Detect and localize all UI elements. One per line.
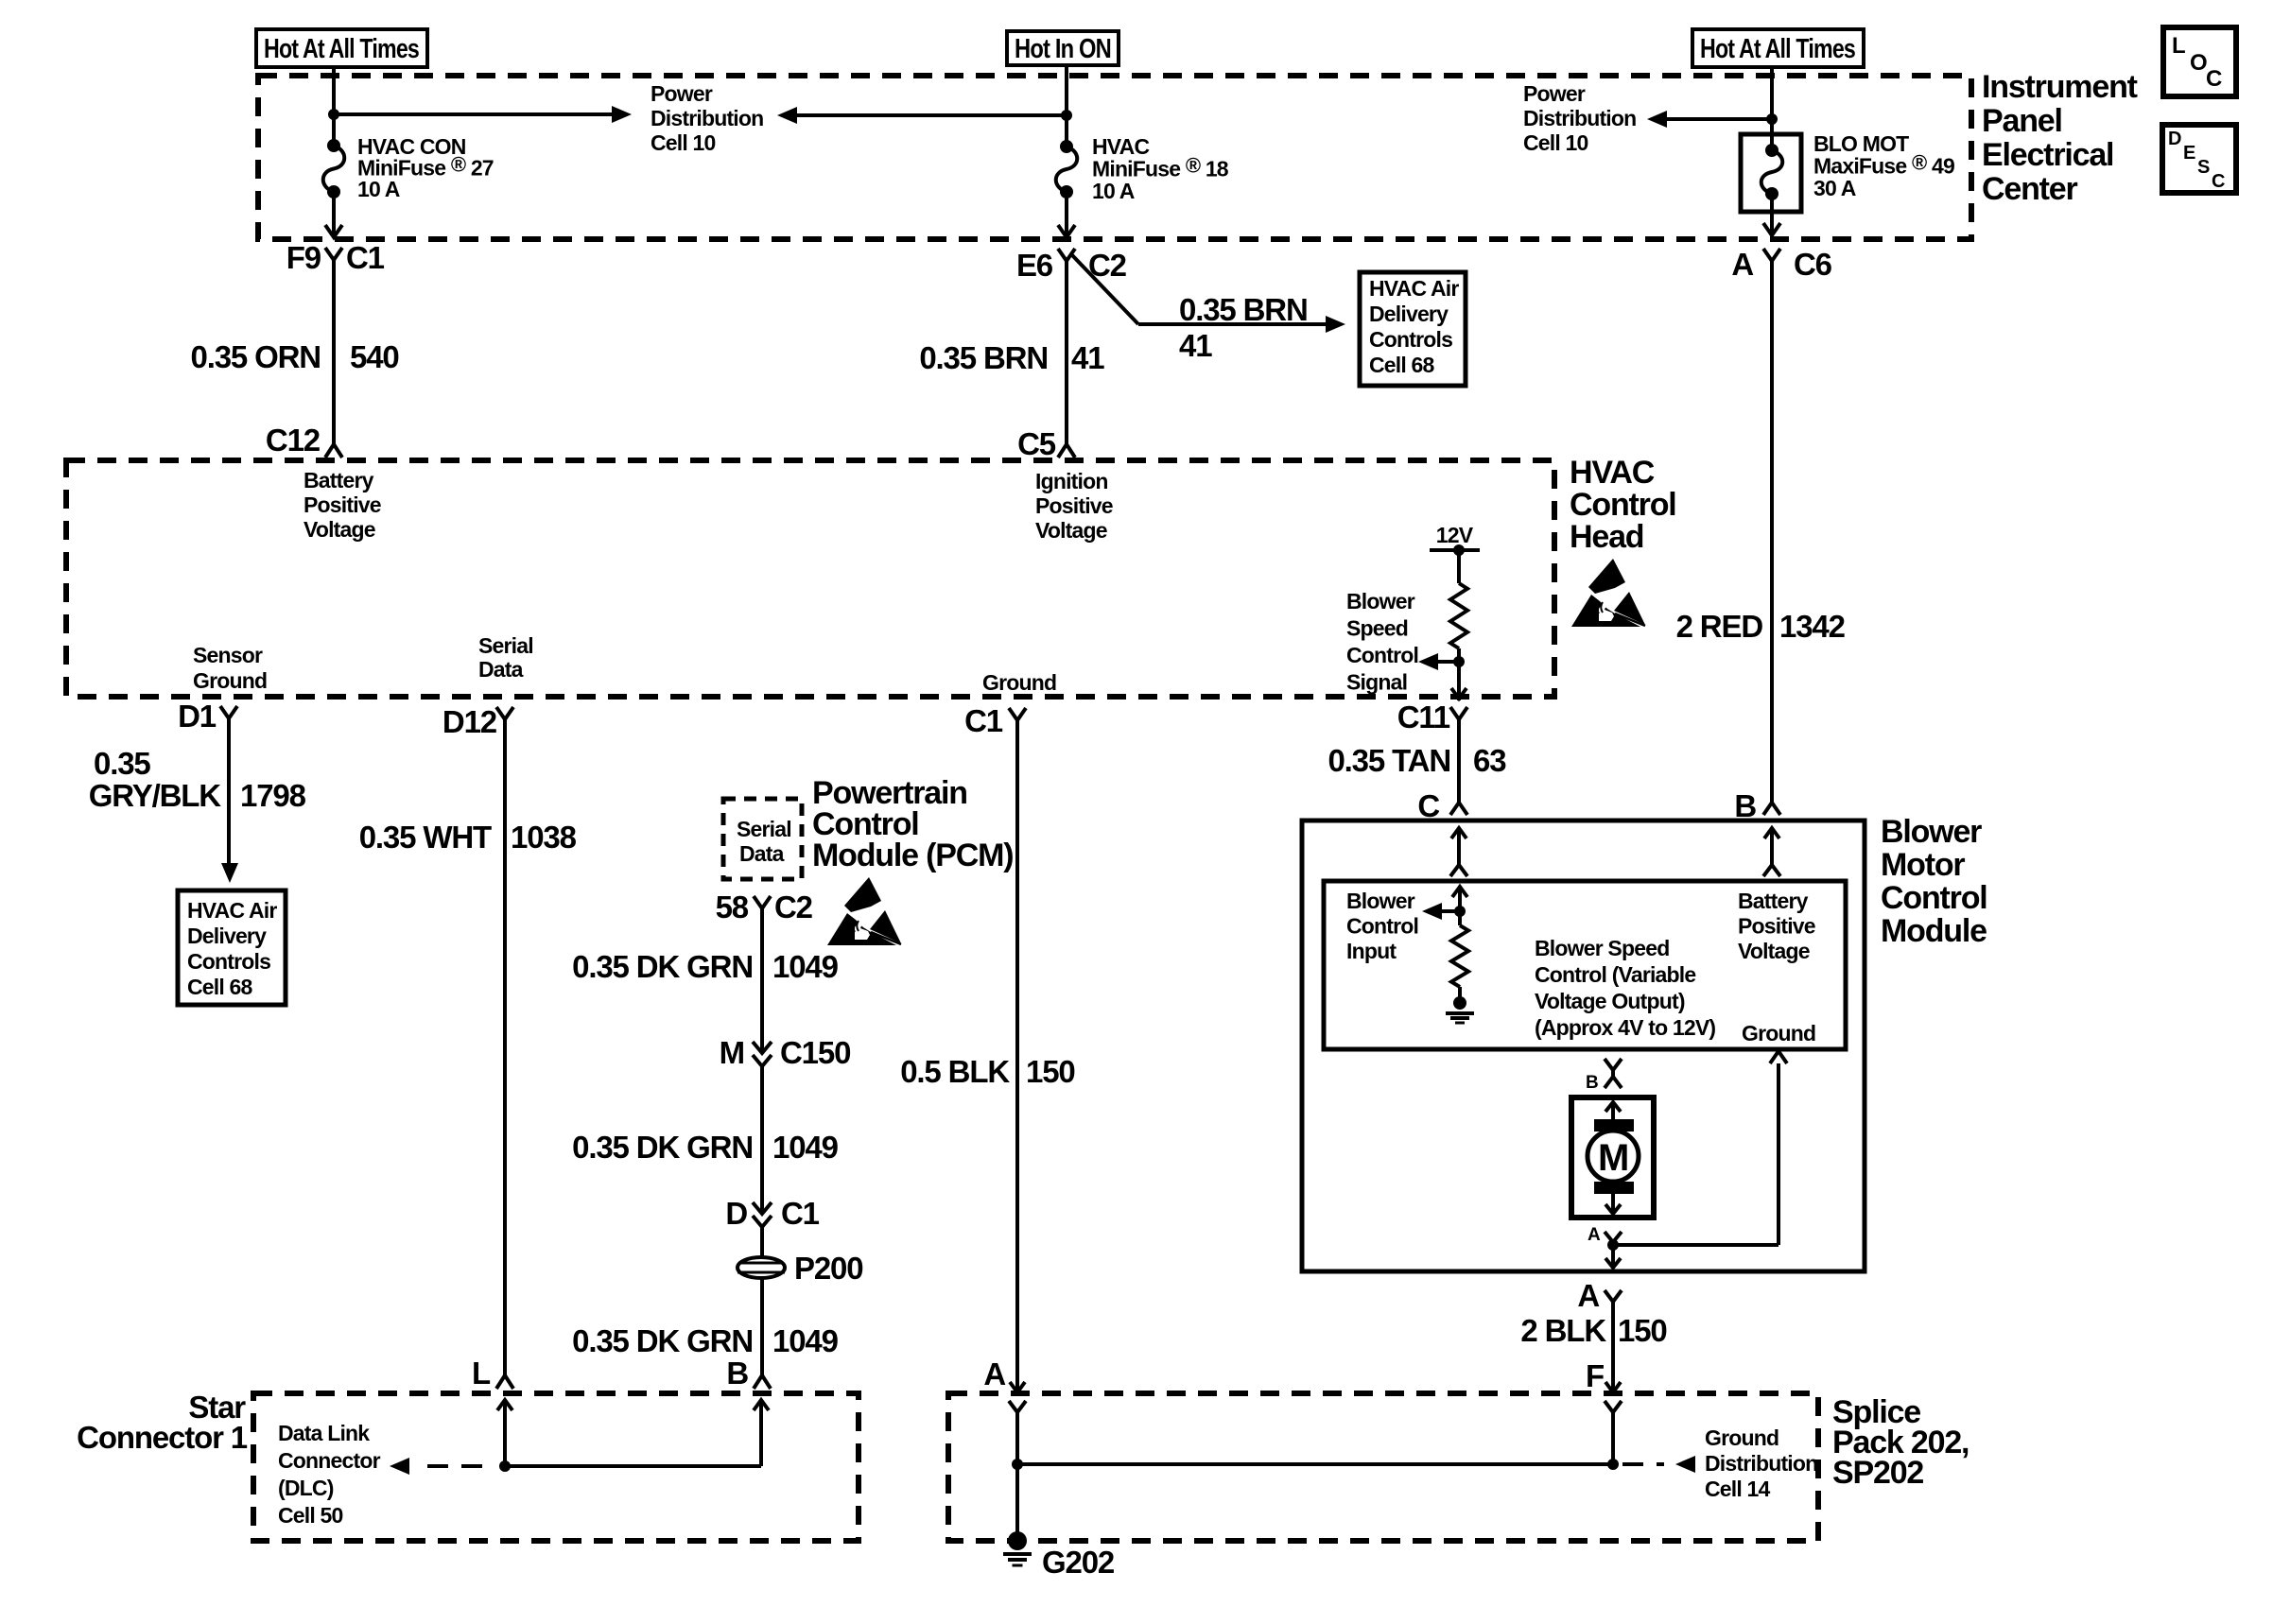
label: 0.35 DK GRN 1049 (1) (572, 949, 838, 984)
svg-text:Data: Data (478, 657, 524, 682)
svg-text:HVAC: HVAC (1092, 134, 1149, 159)
svg-text:Panel: Panel (1982, 103, 2062, 139)
module ground pin connector (1770, 1051, 1787, 1063)
svg-text:540: 540 (350, 339, 399, 374)
svg-text:0.35 WHT: 0.35 WHT (359, 820, 492, 855)
svg-text:C1: C1 (964, 703, 1003, 738)
wire 0.35 ORN 540 (332, 259, 336, 444)
power label box: Hot In ON (1007, 31, 1119, 65)
wire arrow to Power Distribution Cell 10 (middle) (777, 107, 1067, 124)
svg-text:D12: D12 (442, 704, 497, 739)
connector pin C1 (ground) (964, 703, 1026, 738)
svg-text:Battery: Battery (1738, 889, 1809, 913)
HVAC Control Head dashed box (66, 460, 1554, 697)
wire 2 BLK 150 (1611, 1302, 1615, 1369)
svg-text:Motor: Motor (1881, 847, 1965, 883)
connector pin D12 (442, 704, 513, 739)
svg-text:Hot At All Times: Hot At All Times (1700, 34, 1855, 64)
svg-text:Signal: Signal (1346, 670, 1407, 695)
label: HVAC CON MiniFuse 27 10 A (357, 134, 494, 201)
svg-text:M: M (1598, 1137, 1628, 1179)
label: 0.35 WHT 1038 (359, 820, 577, 855)
dashed arrow to Data Link Connector (390, 1458, 482, 1475)
junction node at fuse 27 feed (328, 109, 339, 120)
svg-text:150: 150 (1618, 1313, 1667, 1348)
svg-text:HVAC Air: HVAC Air (187, 898, 277, 923)
svg-text:E6: E6 (1016, 248, 1053, 283)
svg-text:E: E (2183, 143, 2195, 164)
connector pin B (DLC) (726, 1356, 771, 1391)
svg-text:C1: C1 (346, 240, 385, 275)
resistor: blower speed control (head) (1450, 583, 1467, 648)
svg-text:GRY/BLK: GRY/BLK (89, 778, 222, 813)
svg-text:Electrical: Electrical (1982, 137, 2113, 173)
svg-text:Voltage Output): Voltage Output) (1535, 989, 1685, 1013)
svg-text:Blower: Blower (1881, 814, 1982, 850)
module inner box: blower speed control (1324, 881, 1846, 1049)
label: Blower Speed Control (Variable Voltage Output) (1535, 936, 1715, 1040)
svg-text:0.35 ORN: 0.35 ORN (191, 339, 321, 374)
Serial Data dashed box (PCM) (723, 799, 802, 879)
svg-text:Ground: Ground (1705, 1425, 1778, 1450)
label: Power Distribution Cell 10 (left) (651, 81, 763, 155)
svg-text:Cell 14: Cell 14 (1705, 1477, 1771, 1501)
svg-text:M: M (720, 1035, 744, 1070)
resistor: blower control input (module) (1451, 911, 1468, 987)
svg-text:Hot In ON: Hot In ON (1015, 34, 1111, 64)
svg-text:1049: 1049 (772, 1130, 839, 1165)
svg-text:Blower: Blower (1346, 889, 1415, 913)
wire: star node to B pin riser (505, 1400, 769, 1466)
label: Ground (module) (1742, 1021, 1815, 1045)
svg-text:S: S (2197, 157, 2210, 178)
svg-text:L: L (472, 1356, 491, 1391)
wire 0.35 DK GRN 1049 (segment 1) (760, 908, 764, 1052)
svg-text:F: F (1586, 1358, 1604, 1393)
fuse HVAC CON MiniFuse 27 10 A (323, 139, 345, 199)
svg-text:BLO MOT: BLO MOT (1813, 131, 1909, 156)
wire 0.35 BRN 41 (vertical) (1065, 260, 1068, 444)
svg-text:2 RED: 2 RED (1676, 609, 1763, 644)
label: Power Distribution Cell 10 (right) (1523, 81, 1636, 155)
label: 0.35 BRN 41 (vertical) (919, 340, 1104, 375)
label: 2 RED 1342 (1676, 609, 1846, 644)
box: HVAC Air Delivery Controls Cell 68 (left) (178, 890, 286, 1005)
connector pin E6 C2 (1016, 248, 1127, 283)
ESD symbol (HVAC Control Head) (1571, 559, 1645, 627)
label: Serial Data (head) (478, 633, 533, 682)
wire to splice P200 (760, 1227, 764, 1257)
arrow: blower speed control signal (1418, 653, 1459, 670)
12V supply bar (1430, 523, 1480, 556)
connector pin C5 (1017, 426, 1075, 461)
connector pin B (motor) (1586, 1059, 1622, 1093)
junction node A (motor return) (1607, 1239, 1619, 1251)
splice P200 (737, 1251, 862, 1286)
svg-text:Distribution: Distribution (651, 106, 763, 130)
svg-text:1798: 1798 (240, 778, 306, 813)
connector pin F9 C1 (286, 240, 385, 275)
fuse box BLO MOT MaxiFuse 49 (1741, 134, 1801, 212)
svg-text:C2: C2 (774, 890, 813, 924)
svg-text:Positive: Positive (1738, 914, 1815, 939)
label: 0.5 BLK 150 (900, 1054, 1074, 1089)
svg-text:B: B (1734, 788, 1756, 823)
Instrument Panel Electrical Center dashed box (258, 76, 1971, 239)
svg-text:Positive: Positive (304, 492, 381, 517)
svg-text:F9: F9 (286, 240, 321, 275)
svg-text:MaxiFuse ® 49: MaxiFuse ® 49 (1813, 151, 1954, 179)
ESD symbol (PCM) (827, 877, 901, 945)
connector pin D C1 (725, 1196, 819, 1231)
svg-text:Power: Power (1523, 81, 1586, 106)
svg-text:Center: Center (1982, 171, 2078, 207)
svg-text:Ignition: Ignition (1035, 469, 1108, 493)
svg-text:A: A (1588, 1225, 1601, 1245)
svg-text:C6: C6 (1794, 247, 1832, 282)
blower motor box (1571, 1097, 1654, 1218)
svg-text:Delivery: Delivery (1369, 302, 1449, 326)
connector pin L (472, 1356, 513, 1391)
svg-text:Distribution: Distribution (1523, 106, 1636, 130)
svg-text:A: A (1577, 1278, 1599, 1313)
svg-text:Cell 68: Cell 68 (1369, 353, 1435, 377)
label: Powertrain Control Module (PCM) (812, 775, 1013, 873)
wire: 12V to blower speed resistor (1457, 550, 1461, 583)
svg-text:Controls: Controls (1369, 327, 1452, 352)
wire: module ground return (1613, 1063, 1778, 1245)
svg-text:0.35 DK GRN: 0.35 DK GRN (572, 1323, 753, 1358)
label: Battery Positive Voltage (module) (1738, 889, 1815, 963)
svg-text:10 A: 10 A (357, 177, 400, 201)
svg-text:1049: 1049 (772, 949, 839, 984)
svg-text:Controls: Controls (187, 949, 270, 974)
wire: branch 0.35 BRN 41 to HVAC Air Delivery Controls (1072, 255, 1345, 333)
label: HVAC MiniFuse 18 10 A (1092, 134, 1229, 203)
wire: splice to G202 (1015, 1464, 1019, 1539)
wire: fuse 27 output arrow (325, 192, 342, 237)
wire 0.35 GRY/BLK 1798 (227, 718, 231, 866)
wire: Hot At All Times to fuse 49 (1770, 67, 1774, 150)
svg-text:Cell 68: Cell 68 (187, 975, 253, 999)
svg-text:C5: C5 (1017, 426, 1056, 461)
svg-text:Connector: Connector (278, 1448, 381, 1473)
svg-text:Control: Control (1346, 643, 1418, 667)
svg-text:0.35: 0.35 (94, 746, 150, 781)
svg-text:C11: C11 (1397, 700, 1450, 734)
dashed arrow to Ground Distribution (1622, 1456, 1695, 1473)
svg-text:B: B (726, 1356, 748, 1391)
svg-text:Control: Control (1570, 487, 1676, 523)
svg-text:Ground: Ground (1742, 1021, 1815, 1045)
label: Ground Distribution Cell 14 (1705, 1425, 1817, 1501)
label: Blower Motor Control Module (1881, 814, 1987, 949)
svg-text:41: 41 (1071, 340, 1104, 375)
label: Ignition Positive Voltage (head) (1035, 469, 1113, 543)
LOC legend box (2163, 27, 2236, 96)
svg-text:G202: G202 (1042, 1545, 1115, 1580)
junction node: splice left (1012, 1459, 1023, 1470)
svg-text:Instrument: Instrument (1982, 69, 2138, 105)
module internal ground (1446, 987, 1474, 1023)
svg-text:0.35 DK GRN: 0.35 DK GRN (572, 949, 753, 984)
svg-text:Control: Control (1346, 914, 1418, 939)
svg-text:O: O (2190, 50, 2207, 76)
svg-text:Voltage: Voltage (1035, 518, 1107, 543)
svg-text:Connector 1: Connector 1 (77, 1420, 248, 1455)
module input pin C arrow (1450, 828, 1467, 876)
svg-text:Data: Data (739, 841, 785, 866)
connector pin A (splice) with arrow (983, 1356, 1025, 1392)
svg-text:2 BLK: 2 BLK (1520, 1313, 1606, 1348)
label: HVAC Control Head (1570, 455, 1676, 555)
svg-text:D: D (725, 1196, 747, 1231)
svg-text:Delivery: Delivery (187, 924, 267, 948)
svg-text:A: A (983, 1356, 1005, 1391)
connector pin B (module) (1734, 788, 1780, 823)
label: 0.35 TAN 63 (1327, 743, 1506, 778)
wire: resistor to signal node (1451, 648, 1466, 700)
wire 2 RED 1342 (1770, 260, 1774, 803)
label: Splice Pack 202 SP202 (1832, 1394, 1969, 1491)
connector pin C11 (1397, 700, 1467, 734)
svg-text:Module (PCM): Module (PCM) (812, 838, 1013, 873)
svg-text:C: C (2206, 66, 2222, 92)
svg-text:1049: 1049 (772, 1323, 839, 1358)
label: Data Link Connector (DLC) Cell 50 (278, 1421, 381, 1528)
junction node: star connector (499, 1460, 511, 1472)
svg-text:Serial: Serial (737, 817, 791, 841)
svg-text:Module: Module (1881, 913, 1987, 949)
svg-text:0.35 BRN: 0.35 BRN (919, 340, 1048, 375)
label: Blower Control Input (1346, 889, 1418, 963)
wire 0.35 DK GRN 1049 (segment 3) (760, 1278, 764, 1375)
svg-text:12V: 12V (1436, 523, 1474, 547)
fuse BLO MOT MaxiFuse 49 30 A (1761, 144, 1783, 200)
label: 0.35 DK GRN 1049 (2) (572, 1130, 838, 1165)
svg-text:Input: Input (1346, 939, 1397, 963)
svg-text:Sensor: Sensor (193, 643, 263, 667)
svg-text:Ground: Ground (193, 668, 267, 693)
label: 2 BLK 150 (1520, 1313, 1666, 1348)
svg-text:Ground: Ground (982, 670, 1056, 695)
svg-text:0.35 BRN: 0.35 BRN (1179, 292, 1308, 327)
svg-text:L: L (2172, 33, 2185, 59)
svg-text:Control (Variable: Control (Variable (1535, 962, 1695, 987)
Star Connector 1 dashed box (DLC) (253, 1393, 859, 1541)
connector pin A C6 (1731, 247, 1831, 282)
wire: Hot At All Times to fuse 27 (332, 67, 336, 146)
junction node at fuse 18 feed (1061, 110, 1072, 121)
module output arrow at A (1605, 1245, 1621, 1268)
svg-text:A: A (1731, 247, 1753, 282)
svg-text:MiniFuse ® 18: MiniFuse ® 18 (1092, 154, 1229, 181)
svg-text:Cell 50: Cell 50 (278, 1503, 343, 1528)
wire: splice bus (1017, 1462, 1613, 1466)
ground G202 (1003, 1531, 1115, 1580)
connector pin D1 (178, 699, 237, 734)
label: Sensor Ground (193, 643, 267, 693)
svg-text:Serial: Serial (478, 633, 533, 658)
svg-text:Voltage: Voltage (1738, 939, 1810, 963)
box: HVAC Air Delivery Controls Cell 68 (right) (1360, 272, 1466, 386)
wire 0.35 DK GRN 1049 (segment 2) (760, 1066, 764, 1214)
arrow: blower control input (1422, 903, 1460, 920)
svg-text:1038: 1038 (511, 820, 577, 855)
label: Ground (head) (982, 670, 1056, 695)
svg-text:HVAC: HVAC (1570, 455, 1655, 491)
wire: fuse 18 output arrow (1058, 192, 1075, 237)
svg-text:Control: Control (1881, 880, 1987, 916)
svg-text:Power: Power (651, 81, 713, 106)
wire 0.35 WHT 1038 (503, 719, 507, 1375)
connector pin C12 (266, 423, 342, 458)
motor M symbol (1588, 1131, 1639, 1182)
svg-text:Blower: Blower (1346, 589, 1415, 613)
svg-text:C1: C1 (781, 1196, 820, 1231)
svg-text:D1: D1 (178, 699, 217, 734)
wire: fuse 49 output arrow (1763, 194, 1780, 235)
svg-text:Blower Speed: Blower Speed (1535, 936, 1669, 960)
connector pin C (module) (1417, 788, 1467, 823)
connector pin A (below module) (1577, 1278, 1622, 1313)
label: Star Connector 1 (77, 1390, 248, 1455)
wire 0.35 TAN 63 (1457, 719, 1461, 803)
svg-text:41: 41 (1179, 328, 1212, 363)
wire arrow to Power Distribution Cell 10 (left) (334, 106, 632, 123)
module pin C internal arrow (1452, 887, 1467, 911)
svg-text:P200: P200 (794, 1251, 862, 1286)
label: BLO MOT MaxiFuse 49 30 A (1813, 131, 1954, 200)
Splice Pack 202 dashed box (948, 1393, 1818, 1541)
svg-text:Speed: Speed (1346, 616, 1408, 641)
motor feed arrow (top) (1605, 1102, 1621, 1119)
power label box: Hot At All Times (right) (1692, 29, 1864, 67)
svg-text:C: C (2212, 171, 2225, 192)
power label box: Hot At All Times (left) (256, 29, 427, 67)
connector pin A (motor) (1588, 1225, 1622, 1245)
svg-text:SP202: SP202 (1832, 1455, 1923, 1491)
wire 0.5 BLK 150 (1015, 720, 1019, 1392)
connector pin 58 C2 (716, 890, 813, 924)
fuse HVAC MiniFuse 18 10 A (1056, 140, 1078, 199)
label: Blower Speed Control Signal (1346, 589, 1418, 695)
svg-text:0.35 DK GRN: 0.35 DK GRN (572, 1130, 753, 1165)
wire: Hot In ON to fuse 18 (1065, 65, 1068, 147)
svg-text:C: C (1417, 788, 1439, 823)
svg-text:10 A: 10 A (1092, 179, 1135, 203)
svg-text:(Approx 4V to 12V): (Approx 4V to 12V) (1535, 1015, 1715, 1040)
connector pin M C150 (720, 1035, 851, 1070)
Blower Motor Control Module box (1302, 821, 1865, 1271)
label: Battery Positive Voltage (head) (304, 468, 381, 542)
svg-text:0.35 TAN: 0.35 TAN (1327, 743, 1450, 778)
svg-text:63: 63 (1473, 743, 1506, 778)
connector pin F with arrow (1586, 1358, 1621, 1393)
svg-text:0.5 BLK: 0.5 BLK (900, 1054, 1010, 1089)
splice A pin connector (1009, 1401, 1026, 1464)
wire arrow to Power Distribution Cell 10 (right) (1647, 111, 1772, 128)
label: 0.35 ORN 540 (191, 339, 399, 374)
svg-text:HVAC Air: HVAC Air (1369, 276, 1459, 301)
svg-text:150: 150 (1026, 1054, 1075, 1089)
svg-text:Positive: Positive (1035, 493, 1113, 518)
svg-text:30 A: 30 A (1813, 176, 1856, 200)
svg-text:C12: C12 (266, 423, 321, 458)
motor brush (top) (1594, 1119, 1634, 1132)
svg-text:C150: C150 (780, 1035, 850, 1070)
svg-text:Data Link: Data Link (278, 1421, 370, 1445)
motor output arrow (bottom) (1605, 1194, 1621, 1214)
label: Serial Data (PCM) (737, 817, 791, 866)
wire: L pin to star node (497, 1400, 512, 1466)
DESC legend box (2162, 125, 2236, 193)
label: 0.35 GRY/BLK 1798 (89, 746, 306, 813)
svg-text:Head: Head (1570, 519, 1643, 555)
label: 0.35 DK GRN 1049 (3) (572, 1323, 838, 1358)
svg-text:(DLC): (DLC) (278, 1476, 334, 1500)
svg-text:Voltage: Voltage (304, 517, 375, 542)
svg-text:Distribution: Distribution (1705, 1451, 1817, 1476)
junction node: splice right (1607, 1459, 1619, 1470)
label: Instrument Panel Electrical Center (1982, 69, 2138, 207)
svg-text:B: B (1586, 1073, 1598, 1093)
label: 0.35 BRN 41 (branch) (1179, 292, 1308, 363)
svg-text:58: 58 (716, 890, 749, 924)
junction node: blower speed signal (1453, 656, 1465, 667)
svg-text:Cell 10: Cell 10 (651, 130, 716, 155)
junction node: blower control input (1454, 906, 1466, 917)
svg-text:D: D (2168, 129, 2181, 149)
arrow into HVAC Air Delivery Controls (left) (221, 863, 238, 883)
svg-text:Hot At All Times: Hot At All Times (264, 34, 419, 64)
svg-text:Cell 10: Cell 10 (1523, 130, 1588, 155)
motor brush (bottom) (1594, 1182, 1634, 1194)
module input pin B arrow (1763, 828, 1780, 876)
splice F pin connector (1605, 1401, 1622, 1464)
junction node at fuse 49 feed (1766, 113, 1778, 125)
svg-text:Battery: Battery (304, 468, 374, 492)
svg-text:1342: 1342 (1779, 609, 1846, 644)
